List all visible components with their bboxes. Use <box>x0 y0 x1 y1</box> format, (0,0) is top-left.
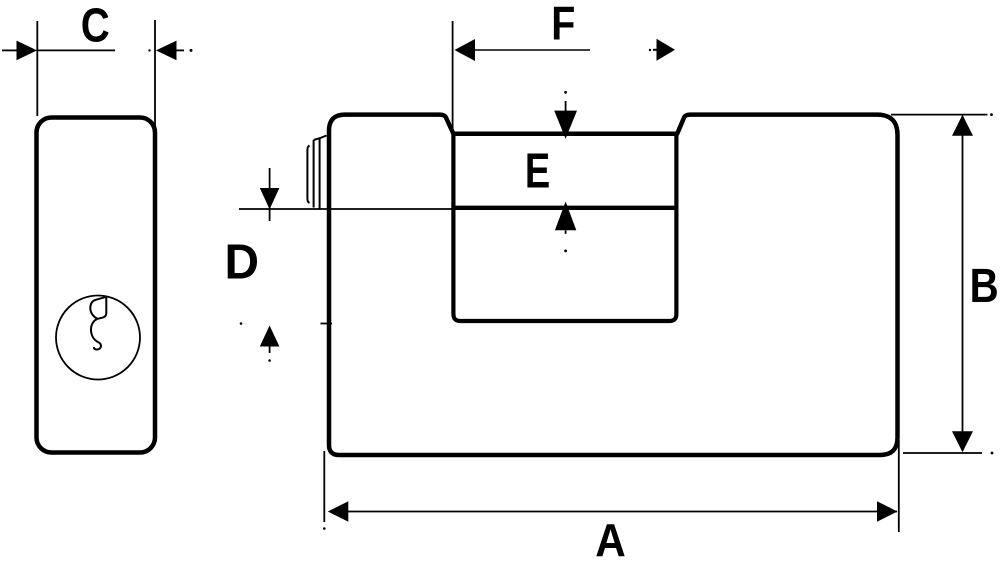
C dimension line <box>38 49 115 51</box>
svg-text:E: E <box>525 144 550 199</box>
E arrow down dot <box>564 91 567 94</box>
B arrow down <box>952 431 973 452</box>
D arrow up dot <box>268 359 271 362</box>
side view body <box>37 118 156 453</box>
svg-text:D: D <box>224 235 259 290</box>
D dash-dot tick <box>321 323 333 325</box>
F arrow left <box>455 39 476 61</box>
svg-text:B: B <box>970 260 999 313</box>
E arrow down <box>554 111 577 139</box>
C dim line dot <box>148 49 150 51</box>
F dimension line <box>474 49 590 51</box>
F detached arrow dot <box>649 49 651 51</box>
E arrow up dot <box>564 250 567 253</box>
A arrow right <box>877 501 897 521</box>
C trailing dot <box>190 49 193 52</box>
bolt top connector <box>314 136 327 141</box>
C extension line right <box>154 20 156 140</box>
D reference line <box>239 208 452 210</box>
shackle bar bottom line <box>452 206 679 210</box>
F detached arrow tail <box>653 49 657 51</box>
A extension right <box>898 440 900 532</box>
svg-text:F: F <box>551 0 575 50</box>
bolt end plate 3 <box>319 139 321 209</box>
D arrow down <box>260 188 280 209</box>
B extension top <box>891 114 988 116</box>
front view body outline <box>329 115 898 455</box>
E arrow up stem <box>565 230 567 234</box>
E arrow up <box>555 202 576 231</box>
C arrow left tail <box>2 49 17 51</box>
bolt end plate 2 <box>313 140 315 208</box>
keyhole circle <box>56 296 140 380</box>
F extension line <box>452 21 454 132</box>
C extension line left <box>36 21 38 116</box>
A arrow left <box>328 501 349 521</box>
D dash-dot dot <box>240 322 243 325</box>
C arrow right tail <box>176 49 184 51</box>
A extension left dot <box>323 527 326 530</box>
B dimension line <box>962 116 964 451</box>
F detached arrow <box>657 39 676 61</box>
C arrow left <box>17 41 38 61</box>
D arrow up stem <box>269 346 271 353</box>
B extension top dash <box>990 113 993 116</box>
B extension bottom <box>903 452 982 454</box>
B extension bottom dot <box>991 452 994 455</box>
bolt end plate 1 <box>307 146 309 204</box>
svg-text:C: C <box>81 0 110 52</box>
shackle slot <box>453 134 676 321</box>
keyhole profile squiggle <box>90 297 106 350</box>
svg-text:A: A <box>595 515 626 566</box>
D arrow down stem <box>269 168 271 221</box>
A extension left <box>323 451 325 522</box>
B arrow up <box>952 115 973 136</box>
A dimension line <box>330 511 897 513</box>
D arrow up <box>260 326 280 347</box>
E arrow down stem <box>565 101 567 112</box>
C arrow right <box>156 41 177 61</box>
